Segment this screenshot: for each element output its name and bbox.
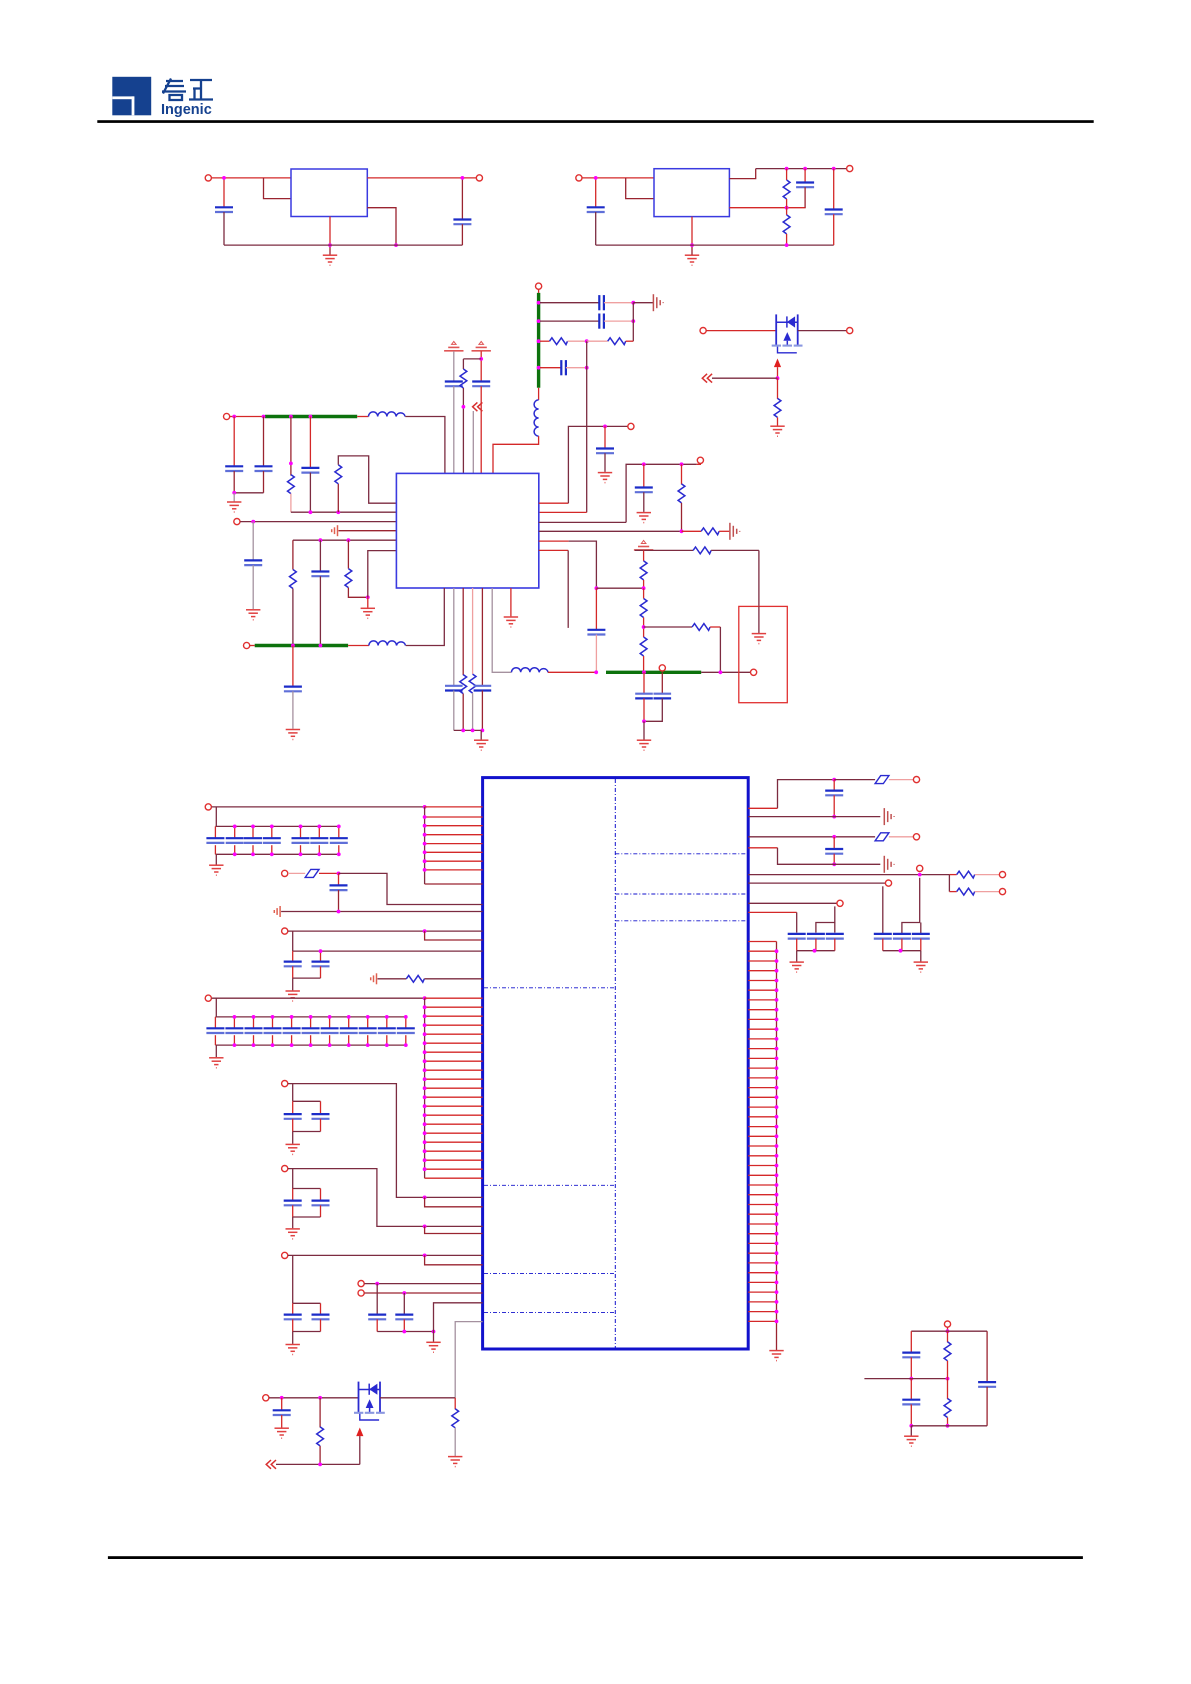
- capacitor C7: [599, 314, 604, 329]
- capacitor C30: [320, 1189, 322, 1201]
- wire to fuse F2: [834, 779, 875, 781]
- U4 pin RB-9: [748, 1018, 776, 1020]
- no-connect marker NC3: [371, 973, 377, 984]
- port P10: [697, 457, 703, 463]
- wire C10 to chip: [480, 386, 482, 473]
- output rail of U2: [756, 168, 847, 170]
- rail bottom BR: [911, 1425, 987, 1427]
- junction on P3 wire: [594, 176, 598, 180]
- chassis ground AGND1: [653, 294, 663, 311]
- port P23: [358, 1290, 364, 1296]
- U4 pin L3-9: [425, 1069, 483, 1071]
- U4 pin RB-25: [748, 1174, 776, 1176]
- U4 pin RB-22: [748, 1145, 776, 1147]
- capacitor C4: [804, 169, 806, 183]
- wire U4 pin R1 route: [748, 807, 777, 809]
- junction X3: [537, 339, 541, 343]
- U4 internal split line: [614, 779, 616, 1348]
- power flag PW1: [444, 341, 463, 350]
- wire F3 to port: [889, 836, 913, 838]
- ground GND17: [292, 1132, 294, 1144]
- port P11 on VDD: [659, 665, 665, 671]
- U4 pin L3-4: [425, 1024, 483, 1026]
- wire PW2 down: [480, 351, 482, 381]
- capacitor C24: [338, 873, 340, 885]
- capacitor C12: [263, 417, 265, 467]
- U4 pin RB-14: [748, 1067, 776, 1069]
- U4 pin RB-28: [748, 1204, 776, 1206]
- inductor L1: [357, 416, 368, 418]
- U4 pin RB-30: [748, 1223, 776, 1225]
- resistor R25: [947, 1331, 949, 1342]
- wire U4 pin R4 route: [748, 847, 777, 849]
- junction R2 bottom: [785, 243, 789, 247]
- net XOUT vertical to PMU pin: [586, 341, 588, 512]
- resistor R9: [347, 540, 349, 568]
- rail cluster4 top: [293, 1100, 321, 1102]
- capacitor C16: [292, 646, 294, 687]
- rail top BR: [911, 1330, 987, 1332]
- U4 pin RB-13: [748, 1057, 776, 1059]
- resistor R24: [454, 1398, 456, 1410]
- wire cap3 top: [834, 923, 836, 933]
- wire branch pin2: [425, 1197, 483, 1206]
- U4 pin RB-8: [748, 1009, 776, 1011]
- resistor R4: [587, 340, 608, 342]
- resistor R17 divider low: [643, 627, 645, 637]
- resistor R15 divider top: [643, 550, 645, 561]
- ground GND18: [292, 1217, 294, 1228]
- capacitor C34: [403, 1293, 405, 1315]
- capacitor C46: [986, 1331, 988, 1382]
- capacitor C26: [320, 951, 322, 962]
- junction rail R9: [347, 538, 351, 542]
- U4 pin L1-3: [425, 825, 483, 827]
- capacitor C31: [292, 1303, 294, 1314]
- wire X1 branch: [540, 302, 599, 304]
- wire P18 bus: [212, 997, 425, 999]
- junction R5 bottom: [462, 405, 466, 409]
- capacitor C22: [643, 672, 645, 693]
- wire R7 top route to PMU pin L1: [338, 456, 396, 503]
- U4 pin L3-19: [425, 1159, 483, 1161]
- rail cluster2: [293, 950, 483, 952]
- port P9: [628, 423, 634, 429]
- junction PW2 branch: [479, 357, 483, 361]
- wire P31 to Q2: [269, 1397, 358, 1399]
- U4 pin L3-16: [425, 1132, 483, 1134]
- port P15: [205, 804, 211, 810]
- port P1 input of regulator U1: [205, 175, 211, 181]
- wire node to PMU pin L6: [368, 551, 397, 598]
- wire U2 OUT up to output rail: [729, 169, 755, 179]
- SoC chip U4: [483, 778, 749, 1349]
- ground GND26: [910, 1426, 912, 1436]
- wire XOUT into chip: [539, 511, 587, 513]
- wire cap6 top: [920, 923, 922, 934]
- wire P19 route: [288, 1084, 483, 1198]
- cap bank rail top: [215, 825, 338, 827]
- U4 pin RB-16: [748, 1087, 776, 1089]
- U4 pin L1-5: [425, 843, 483, 845]
- junction BR bot-mid: [946, 1424, 950, 1428]
- wire U2 GND pin down: [691, 217, 693, 246]
- junction bus1 top: [423, 805, 427, 809]
- transistor Q2 PMOS: [354, 1382, 385, 1420]
- port P31: [263, 1395, 269, 1401]
- wire gate row: [276, 1463, 360, 1465]
- port P17: [282, 928, 288, 934]
- junction C5 top: [832, 167, 836, 171]
- junction P20 branch: [423, 1225, 427, 1229]
- U4 pin L3-21: [425, 1177, 483, 1179]
- capacitor C27: [292, 1101, 294, 1114]
- port P18: [205, 995, 211, 1001]
- inductor L3: [512, 668, 549, 673]
- U4 pin RB-31: [748, 1233, 776, 1235]
- inductor FB1: [538, 388, 540, 400]
- capacitor C6: [599, 295, 604, 310]
- U4 pin L3-5: [425, 1033, 483, 1035]
- port P2 output of U1: [476, 175, 482, 181]
- junction C20: [642, 462, 646, 466]
- U4 pin RB-37: [748, 1291, 776, 1293]
- capacitor CB2-6: [310, 1017, 312, 1028]
- rail caps right1: [797, 950, 835, 952]
- fuse F3: [875, 833, 889, 841]
- wire FB1 to chip top: [493, 436, 539, 473]
- U4 pin L1-1: [425, 806, 483, 808]
- rail PMU pin L5: [293, 539, 397, 541]
- port P7: [234, 519, 240, 525]
- transistor Q1 PMOS: [772, 314, 803, 352]
- rail cluster6 top: [293, 1302, 321, 1304]
- capacitor C35: [833, 780, 835, 791]
- rail cluster2 bottom: [293, 977, 321, 979]
- port P32: [944, 1321, 950, 1327]
- capacitor CB1-7: [338, 826, 340, 838]
- U4 pin RB-15: [748, 1077, 776, 1079]
- capacitor C8: [561, 360, 566, 375]
- U4 internal section line: [484, 1272, 615, 1274]
- junction caps bottom: [642, 719, 646, 723]
- rail cluster5 top: [293, 1188, 321, 1190]
- wire U4 pin R2: [748, 816, 880, 818]
- net VIN thick green wire: [265, 415, 357, 418]
- wire branch to R5: [463, 358, 481, 360]
- port P6 VIN: [224, 413, 230, 419]
- capacitor C40: [874, 934, 892, 939]
- pin bus 1: [424, 807, 426, 884]
- junction on P1 wire: [222, 176, 226, 180]
- wire P13 to Q1 source: [706, 330, 776, 332]
- wire P17 to U4: [288, 930, 483, 932]
- U4 pin RB-17: [748, 1096, 776, 1098]
- port P12 inside J1: [751, 669, 757, 675]
- U4 pin L3-13: [425, 1105, 483, 1107]
- U4 pin RB-6: [748, 989, 776, 991]
- junction rail: [813, 949, 817, 953]
- rail ports cluster: [377, 1331, 433, 1333]
- U4 pin L3-14: [425, 1114, 483, 1116]
- junction U2 gnd rail: [690, 243, 694, 247]
- ground GND25: [448, 1457, 462, 1467]
- junction P23 cap: [402, 1291, 406, 1295]
- U4 pin RB-10: [748, 1028, 776, 1030]
- fuse F1: [305, 869, 319, 877]
- U4 internal section line: [484, 1311, 615, 1313]
- junction C21 bottom: [594, 670, 598, 674]
- ground GND6: [286, 730, 300, 740]
- junction C4 top: [803, 167, 807, 171]
- wire branch pin2: [425, 1255, 483, 1264]
- resistor R23: [319, 1398, 321, 1428]
- wire P6 to inductor net: [230, 416, 265, 418]
- wire P20 route: [288, 1169, 483, 1227]
- U4 internal section line: [484, 1184, 615, 1186]
- ground GND8 under PMU: [510, 588, 512, 616]
- U4 pin L1-2: [425, 816, 483, 818]
- ground GND21: [796, 951, 798, 962]
- wire U2 ADJ pin: [729, 207, 805, 209]
- junction C19 top: [603, 425, 607, 429]
- ground GND5: [367, 597, 369, 608]
- wire gray feed: [472, 411, 474, 473]
- U4 pin RB-21: [748, 1135, 776, 1137]
- wire C6 to gnd stub: [604, 302, 633, 304]
- junction rail C34: [402, 1330, 406, 1334]
- capacitor CB2-10: [386, 1017, 388, 1028]
- ground GND16: [215, 1045, 217, 1057]
- junction R3-R4: [585, 339, 589, 343]
- U4 right pin bus: [776, 942, 778, 1351]
- ground GND9: [598, 473, 612, 483]
- power flag PW3: [634, 541, 653, 550]
- junction B2: [471, 729, 475, 733]
- capacitor C28: [320, 1101, 322, 1114]
- capacitor C9: [445, 382, 463, 387]
- ground GND23 bus: [769, 1351, 783, 1361]
- U4 pin L1-7: [425, 860, 483, 862]
- U4 pin RB-24: [748, 1165, 776, 1167]
- ground GND19: [292, 1332, 294, 1344]
- bottom rail of U2 block: [596, 244, 834, 246]
- junction P32: [946, 1329, 950, 1333]
- U4 internal section line: [615, 920, 747, 922]
- wire P17 down: [292, 931, 294, 951]
- wire VDD to box: [701, 671, 750, 673]
- junction VDD L: [642, 670, 646, 674]
- svg-text:Ingenic: Ingenic: [161, 102, 212, 118]
- power arrow Q1 gate: [774, 359, 781, 368]
- capacitor CB1-1: [214, 826, 216, 838]
- rail caps right2: [883, 950, 921, 952]
- power flag PW2: [472, 341, 491, 350]
- port P30: [837, 900, 843, 906]
- junction X1: [537, 301, 541, 305]
- wire U2 enable loop: [626, 178, 654, 199]
- junction R5 port: [918, 873, 922, 877]
- wire U4 pin to Q2 drain: [455, 1322, 482, 1398]
- no-connect marker NC2: [274, 906, 280, 917]
- U4 pin L3-11: [425, 1087, 483, 1089]
- wire X4 branch: [540, 367, 561, 369]
- wire route up to port P10: [626, 464, 697, 522]
- wire F2 to port: [889, 779, 913, 781]
- junction W1: [291, 644, 295, 648]
- power arrow Q2 gate: [356, 1428, 363, 1437]
- wire P30 stub down: [816, 906, 835, 932]
- U4 pin RB-39: [748, 1311, 776, 1313]
- wire X2 branch: [540, 320, 599, 322]
- junction R6 upper: [289, 462, 293, 466]
- capacitor C11: [233, 417, 235, 467]
- resistor R11: [472, 588, 474, 674]
- port P28: [999, 889, 1005, 895]
- ground GND4: [246, 610, 260, 620]
- bank2 rail top: [215, 1016, 405, 1018]
- resistor R19: [777, 378, 779, 399]
- junction P7 branch: [251, 520, 255, 524]
- U4 pin L3-2: [425, 1006, 483, 1008]
- rail cluster6 bottom: [293, 1331, 321, 1333]
- wire U4 pin R3: [748, 836, 875, 838]
- wire U4 pin R8: [748, 911, 797, 913]
- wire P20 down: [292, 1169, 294, 1189]
- junction GND rail: [328, 243, 332, 247]
- junction fuse row2: [832, 835, 836, 839]
- capacitor CB1-3: [252, 826, 254, 838]
- wire P18 to bank2: [215, 998, 217, 1017]
- U4 pin RB-38: [748, 1301, 776, 1303]
- footer rule: [108, 1556, 1083, 1559]
- wire PMU pin to L3 inductor: [492, 588, 511, 672]
- U4 pin RB-4: [748, 970, 776, 972]
- wire P22 to U4: [364, 1283, 482, 1285]
- capacitor C17: [453, 588, 455, 686]
- U4 pin L3-15: [425, 1123, 483, 1125]
- capacitor C43: [281, 1398, 283, 1411]
- junction C6 right: [631, 301, 635, 305]
- net VDD thick green wire: [606, 671, 701, 674]
- capacitor C29: [292, 1189, 294, 1201]
- junction C11 bottom: [232, 491, 236, 495]
- junction rail C15: [319, 538, 323, 542]
- junction P22 cap: [375, 1282, 379, 1286]
- wire P19 down: [292, 1084, 294, 1102]
- wire to connector box: [758, 550, 760, 606]
- capacitor C14: [252, 522, 254, 561]
- rail PW3: [635, 549, 693, 551]
- junction divider mid: [642, 586, 646, 590]
- junction V3: [309, 415, 313, 419]
- junction bus3 top: [423, 996, 427, 1000]
- junction C8 right: [585, 366, 589, 370]
- wire PMU pin R3 long: [539, 521, 626, 523]
- U4 pin RB-40: [748, 1320, 776, 1322]
- port P20: [282, 1166, 288, 1172]
- wire U1 GND pin down: [329, 217, 331, 246]
- junction C13 rail: [309, 510, 313, 514]
- capacitor CB2-11: [405, 1017, 407, 1028]
- wire L2 to PMU bottom pin: [406, 588, 445, 646]
- junction C35 bottom: [832, 815, 836, 819]
- wire P8 stub: [250, 645, 255, 647]
- ground GND20: [433, 1332, 435, 1342]
- ground GND13: [770, 426, 784, 436]
- capacitor C20: [643, 464, 645, 487]
- junction divider tap: [642, 625, 646, 629]
- wire L1 to chip top: [405, 417, 445, 474]
- wire branch pin: [425, 931, 483, 940]
- wire P16 to F1: [288, 872, 305, 874]
- U4 pin RB-7: [748, 999, 776, 1001]
- port P25: [913, 834, 919, 840]
- wire P21 down: [292, 1255, 294, 1303]
- wire P7 to PMU pin L3: [240, 521, 396, 523]
- capacitor CB2-1: [214, 1017, 216, 1028]
- U4 pin RB-27: [748, 1194, 776, 1196]
- fuse F2: [875, 776, 889, 784]
- wire C7 right: [604, 320, 633, 322]
- wire A2 to gate node: [712, 377, 778, 379]
- U4 internal section line: [615, 893, 747, 895]
- resistor R8: [292, 540, 294, 569]
- junction BR mid: [946, 1377, 950, 1381]
- wire PW1 down: [453, 351, 455, 381]
- junction ADJ node: [785, 206, 789, 210]
- U4 pin L1-4: [425, 834, 483, 836]
- wire U4 pin R5: [748, 874, 949, 876]
- capacitor CB1-5: [300, 826, 302, 838]
- pin bus 3: [424, 998, 426, 1178]
- capacitor C23: [661, 672, 663, 693]
- resistor R6: [290, 417, 292, 476]
- junction C24 bottom: [337, 910, 341, 914]
- junction C2 top: [461, 176, 465, 180]
- wire NC1 to PMU pin L4: [339, 530, 397, 532]
- rail cluster5 bottom: [293, 1216, 321, 1218]
- junction R12: [680, 462, 684, 466]
- capacitor CB2-8: [348, 1017, 350, 1028]
- wire R8 down to cap: [796, 912, 798, 932]
- resistor R1: [786, 169, 788, 180]
- U4 pin L3-20: [425, 1168, 483, 1170]
- U4 pin L3-18: [425, 1150, 483, 1152]
- junction R1 top: [785, 167, 789, 171]
- chassis ground AGND4: [884, 856, 894, 873]
- capacitor C5: [833, 169, 835, 210]
- U4 pin L3-10: [425, 1078, 483, 1080]
- ground GND3: [233, 493, 235, 502]
- resistor R7: [337, 484, 339, 512]
- bank2 rail bottom: [215, 1044, 405, 1046]
- junction P21 branch: [423, 1254, 427, 1258]
- U4 pin RB-5: [748, 980, 776, 982]
- resistor R3: [540, 340, 550, 342]
- capacitor CB1-6: [318, 826, 320, 838]
- port P3 input of regulator U2: [576, 175, 582, 181]
- wire R20 to U4: [424, 978, 482, 980]
- U4 pin RB-1: [748, 941, 776, 943]
- port P22: [358, 1281, 364, 1287]
- wire P21 to U4: [288, 1254, 483, 1256]
- port P16: [282, 870, 288, 876]
- rail to PMU pin L2: [291, 511, 397, 513]
- offpage arrow A1: [473, 402, 483, 411]
- U4 pin RB-33: [748, 1252, 776, 1254]
- resistor R14: [693, 547, 711, 554]
